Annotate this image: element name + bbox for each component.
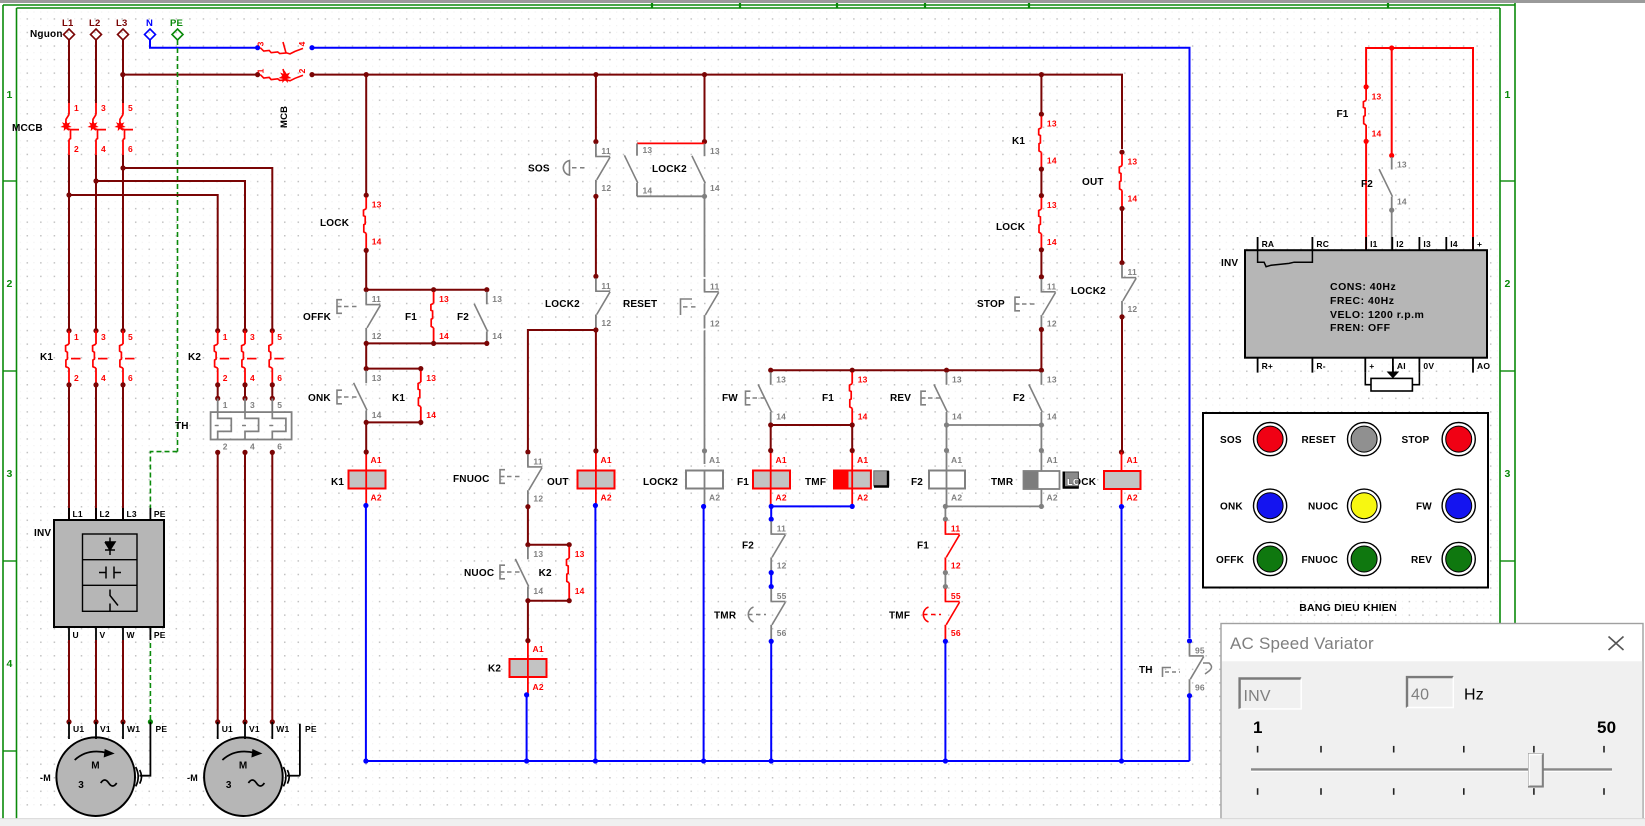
dialog slider thumb (1529, 754, 1544, 787)
dialog body (1222, 661, 1642, 818)
svg-text:3: 3 (250, 332, 255, 342)
svg-text:14: 14 (439, 331, 449, 341)
wire MCB to right neutral drop (312, 48, 1190, 638)
svg-text:13: 13 (776, 375, 786, 385)
svg-text:I2: I2 (1396, 239, 1404, 249)
wire OUT A2 to rail (594, 506, 596, 762)
svg-text:14: 14 (1397, 197, 1407, 207)
wire NUOC row bottom header (528, 600, 569, 602)
svg-text:V1: V1 (249, 724, 260, 734)
potentiometer on AI (1371, 378, 1412, 391)
svg-text:REV: REV (1411, 555, 1432, 566)
svg-text:R-: R- (1316, 361, 1325, 371)
wire branch L3 to K2 pole5 (123, 168, 272, 331)
svg-text:Nguon: Nguon (30, 29, 63, 40)
svg-text:+: + (1369, 361, 1374, 371)
svg-text:F1: F1 (917, 541, 929, 552)
wire rung SOS drop (595, 75, 597, 142)
svg-text:11: 11 (777, 524, 786, 534)
breaker MCB pole N (260, 48, 303, 54)
svg-text:FNUOC: FNUOC (453, 474, 490, 485)
wire L3 control feed (dark red bus) (123, 74, 258, 76)
wire to F1 coil (770, 425, 772, 451)
svg-text:AI: AI (1397, 361, 1406, 371)
svg-text:OFFK: OFFK (1216, 555, 1245, 566)
node L3 bus tap (120, 72, 125, 77)
svg-text:PE: PE (154, 509, 166, 519)
svg-text:11: 11 (951, 524, 960, 534)
node branch L3 (120, 165, 125, 170)
node I-loop junction (1389, 45, 1394, 50)
svg-text:Hz: Hz (1464, 687, 1484, 704)
svg-text:A1: A1 (1127, 455, 1138, 465)
svg-text:95: 95 (1195, 646, 1205, 656)
svg-text:40: 40 (1411, 687, 1429, 704)
dialog slider ticks bottom (1257, 788, 1259, 795)
svg-text:L2: L2 (100, 509, 110, 519)
wire STOP to FW row (1040, 330, 1042, 371)
svg-text:A2: A2 (709, 493, 720, 503)
svg-text:A1: A1 (776, 455, 787, 465)
svg-text:1: 1 (256, 68, 266, 73)
svg-text:R+: R+ (1262, 361, 1274, 371)
svg-text:K1: K1 (331, 477, 344, 488)
svg-text:A2: A2 (1047, 493, 1058, 503)
svg-text:11: 11 (710, 281, 719, 291)
wire A2 join down right chain (944, 506, 946, 519)
svg-text:11: 11 (1047, 281, 1056, 291)
node OUT A2 blue (593, 503, 598, 508)
wire branch L2 to K2 pole3 (96, 181, 245, 331)
svg-text:K1: K1 (1012, 136, 1025, 147)
svg-text:55: 55 (777, 591, 787, 601)
svg-text:LOCK2: LOCK2 (643, 477, 678, 488)
wire L3 down to MCCB (122, 40, 124, 103)
svg-text:F1: F1 (405, 312, 417, 323)
wire FW row join left (771, 424, 853, 426)
svg-text:2: 2 (74, 144, 79, 154)
svg-text:0V: 0V (1423, 361, 1434, 371)
svg-text:6: 6 (277, 442, 282, 452)
inverter INV block right (1245, 250, 1487, 358)
wire rung LOCK2 drop (704, 75, 706, 142)
svg-text:V1: V1 (100, 724, 111, 734)
svg-text:12: 12 (777, 561, 787, 571)
wire L3 MCCB to K1 (122, 155, 124, 331)
contactor K2 pole 2 (242, 328, 247, 333)
svg-text:1: 1 (223, 400, 228, 410)
svg-text:12: 12 (533, 494, 543, 504)
node TH bottom (1187, 693, 1192, 698)
svg-text:FREN: OFF: FREN: OFF (1330, 322, 1391, 334)
node below LOCK2NC (1119, 314, 1124, 319)
svg-text:56: 56 (951, 628, 961, 638)
svg-text:TH: TH (175, 421, 189, 432)
svg-text:FW: FW (722, 393, 738, 404)
timer TMR side chip (1063, 472, 1078, 487)
svg-text:11: 11 (601, 281, 610, 291)
wire OFFK row bottom header (366, 342, 487, 344)
wire NUOC row top header (528, 544, 569, 546)
node FNUOC bottom (525, 504, 530, 509)
svg-text:F1: F1 (737, 477, 749, 488)
svg-text:F2: F2 (457, 312, 469, 323)
dialog AC Speed Variator (1221, 624, 1643, 820)
wire REV row join right (947, 424, 1042, 426)
wire INV outputs to motor 1 (68, 640, 70, 722)
svg-text:14: 14 (372, 237, 382, 247)
wire F2 to I2 (1391, 210, 1393, 252)
svg-text:A2: A2 (371, 493, 382, 503)
control bus horizontal (312, 75, 1122, 149)
motor M1 terminals (66, 719, 71, 724)
svg-text:13: 13 (1372, 91, 1382, 101)
svg-text:4: 4 (250, 373, 255, 383)
svg-text:A1: A1 (709, 455, 720, 465)
svg-text:A1: A1 (1047, 455, 1058, 465)
svg-text:TMF: TMF (805, 477, 826, 488)
svg-text:ONK: ONK (1220, 502, 1243, 513)
svg-text:SOS: SOS (528, 164, 550, 175)
svg-text:AO: AO (1477, 361, 1490, 371)
terminal L1 (64, 29, 75, 40)
svg-text:13: 13 (372, 373, 382, 383)
svg-text:A2: A2 (857, 493, 868, 503)
svg-text:4: 4 (297, 41, 307, 46)
svg-text:LOCK2: LOCK2 (652, 164, 687, 175)
wire split to FNUOC rung (528, 330, 596, 452)
wire TH to rail corner (1189, 696, 1191, 761)
inverter INV block left (54, 520, 164, 627)
node SOS top (593, 139, 598, 144)
frame row dividers left (3, 180, 17, 182)
node TMR bottom blue (769, 639, 774, 644)
wire to F2 coil (946, 425, 948, 471)
node LOCK2 pair bottom (702, 194, 707, 199)
svg-text:12: 12 (1047, 318, 1057, 328)
svg-text:+: + (1477, 239, 1482, 249)
wire RESET to LOCK2 coil (704, 331, 706, 465)
wire SOS to LOCK2NC (595, 196, 597, 276)
svg-text:13: 13 (372, 200, 382, 210)
wire to K1 coil (365, 422, 367, 452)
svg-text:14: 14 (492, 331, 502, 341)
svg-text:STOP: STOP (1402, 435, 1430, 446)
svg-text:13: 13 (1047, 119, 1057, 129)
contact LOCK2 NO inline (704, 144, 706, 157)
svg-text:96: 96 (1195, 683, 1205, 693)
node bus tap rung LOCK2 (702, 72, 707, 77)
svg-text:3: 3 (250, 400, 255, 410)
svg-text:14: 14 (858, 412, 868, 422)
svg-text:RESET: RESET (623, 299, 657, 310)
wire ONK row bottom header (366, 421, 421, 423)
wire PE jog to INV (150, 452, 177, 512)
wire short link (770, 573, 772, 587)
svg-text:3: 3 (78, 780, 84, 791)
wire A2 join down (770, 506, 772, 519)
svg-text:6: 6 (128, 144, 133, 154)
wire N to MCB (blue neutral) (150, 40, 258, 48)
svg-text:F1: F1 (822, 393, 834, 404)
INV bottom terminals (1257, 358, 1259, 373)
wire to LOCK coil (1121, 317, 1123, 452)
svg-text:L1: L1 (73, 509, 83, 519)
svg-text:14: 14 (1372, 128, 1382, 138)
svg-text:STOP: STOP (977, 299, 1005, 310)
svg-text:55: 55 (951, 591, 961, 601)
motor M2 (204, 737, 283, 816)
wire L1 down to MCCB (68, 40, 70, 103)
svg-text:LOCK: LOCK (320, 218, 350, 229)
wire to TMR coil (1040, 425, 1042, 471)
wire LOCK2 branch bottom header (gray) (637, 195, 705, 197)
svg-text:INV: INV (34, 528, 51, 539)
svg-text:12: 12 (372, 331, 382, 341)
contactor K2 pole 3 (270, 328, 275, 333)
node split OUT/FNUOC (593, 327, 598, 332)
node MCB blue left (255, 45, 260, 50)
svg-text:A2: A2 (601, 493, 612, 503)
svg-text:MCCB: MCCB (12, 123, 43, 134)
svg-text:A1: A1 (951, 455, 962, 465)
svg-text:12: 12 (710, 318, 720, 328)
svg-text:INV: INV (1221, 258, 1238, 269)
svg-text:I3: I3 (1423, 239, 1431, 249)
svg-text:K2: K2 (539, 568, 552, 579)
svg-text:1: 1 (223, 332, 228, 342)
svg-text:11: 11 (1128, 267, 1137, 277)
svg-text:LOCK2: LOCK2 (1071, 286, 1106, 297)
svg-text:-M: -M (40, 773, 51, 783)
node LOCK A2 blue (1119, 504, 1124, 509)
svg-text:OUT: OUT (1082, 177, 1104, 188)
wire K1 A2 to rail (365, 506, 367, 762)
svg-text:56: 56 (777, 628, 787, 638)
svg-text:LOCK: LOCK (996, 222, 1026, 233)
svg-text:13: 13 (533, 549, 543, 559)
node K2 A2 blue (524, 692, 529, 697)
svg-text:1: 1 (1504, 89, 1510, 101)
breaker MCCB pole 2 (95, 103, 97, 115)
frame top column ticks (651, 3, 653, 8)
wire LOCK2 pair to RESET (704, 196, 706, 277)
breaker MCCB pole 1 (68, 103, 70, 115)
wire short link right (944, 573, 946, 587)
svg-text:K1: K1 (392, 393, 405, 404)
terminal PE (172, 29, 183, 40)
wire ONK row top header (366, 368, 421, 370)
node K1 aux top (1039, 112, 1044, 117)
svg-text:14: 14 (1128, 194, 1138, 204)
svg-text:1: 1 (74, 332, 79, 342)
wire TH outputs to motor 2 (217, 452, 219, 722)
svg-text:50: 50 (1597, 718, 1616, 737)
svg-text:F1: F1 (1337, 109, 1349, 120)
timer TMF side chip (874, 471, 889, 486)
svg-text:13: 13 (1047, 375, 1057, 385)
node bus tap rung SOS (593, 72, 598, 77)
svg-text:K2: K2 (488, 664, 501, 675)
dialog slider ticks top (1257, 746, 1259, 753)
drawing frame outer border (3, 4, 1515, 6)
svg-text:-M: -M (187, 773, 198, 783)
svg-text:L3: L3 (127, 509, 137, 519)
wire F1 to I1 (1365, 141, 1367, 252)
svg-text:FNUOC: FNUOC (1302, 555, 1339, 566)
contactor K2 pole 1 (215, 328, 220, 333)
svg-text:N: N (146, 18, 153, 29)
svg-text:3: 3 (226, 780, 232, 791)
contactor K1 pole 2 (93, 328, 98, 333)
node bus tap rung K1 (364, 72, 369, 77)
svg-text:OUT: OUT (547, 477, 569, 488)
node branch L1 (66, 192, 71, 197)
INV top terminals (1257, 237, 1259, 250)
motor M2 terminals (215, 719, 220, 724)
svg-text:2: 2 (6, 278, 12, 290)
node LOCK2 pair top (702, 139, 707, 144)
svg-text:A1: A1 (371, 455, 382, 465)
dialog close X (1609, 637, 1624, 651)
terminal L2 (91, 29, 102, 40)
svg-text:NUOC: NUOC (1308, 502, 1338, 513)
svg-text:2: 2 (223, 373, 228, 383)
node branch L2 (93, 178, 98, 183)
drawing frame inner border (17, 7, 1501, 9)
svg-text:14: 14 (952, 412, 962, 422)
node N line TH top (1187, 638, 1192, 643)
motor M1 (56, 737, 135, 816)
svg-text:2: 2 (74, 373, 79, 383)
svg-text:14: 14 (533, 586, 543, 596)
svg-text:FW: FW (1416, 502, 1432, 513)
svg-text:U1: U1 (222, 724, 233, 734)
node MCB blue right (309, 45, 314, 50)
breaker MCB pole L (closed with trip star) (260, 75, 303, 81)
svg-text:5: 5 (277, 400, 282, 410)
svg-text:PE: PE (156, 724, 168, 734)
wire branch L1 to K2 pole1 (69, 195, 218, 331)
svg-text:4: 4 (101, 144, 106, 154)
svg-text:M: M (239, 761, 248, 772)
node MCB dkred right (309, 72, 314, 77)
svg-text:13: 13 (643, 145, 653, 155)
svg-text:L2: L2 (89, 18, 101, 29)
svg-text:14: 14 (1047, 237, 1057, 247)
svg-text:F2: F2 (1013, 393, 1025, 404)
wire F2/TMR A2 gray join (945, 505, 1041, 507)
svg-text:FREC: 40Hz: FREC: 40Hz (1330, 295, 1395, 307)
neutral bottom rail (366, 760, 1190, 762)
contactor K1 pole 3 (120, 328, 125, 333)
node STOP bottom (1039, 327, 1044, 332)
svg-text:AC Speed Variator: AC Speed Variator (1230, 634, 1374, 653)
wire L2 down to MCCB (95, 40, 97, 103)
svg-text:VELO: 1200 r.p.m: VELO: 1200 r.p.m (1330, 309, 1424, 321)
svg-text:13: 13 (952, 375, 962, 385)
wire K1aux to LOCK (1040, 169, 1042, 196)
wire rung STOP drop (1040, 75, 1042, 115)
svg-text:3: 3 (101, 103, 106, 113)
svg-text:TMR: TMR (714, 611, 737, 622)
control panel box (1203, 413, 1488, 588)
wire junction drop (1391, 48, 1393, 156)
svg-text:4: 4 (101, 373, 106, 383)
wire PE dashed down (177, 40, 179, 452)
frame row dividers right (1500, 180, 1515, 182)
wire F1/TMF A2 blue join (771, 505, 852, 507)
terminal L3 (118, 29, 129, 40)
wire OUTaux to LOCK2NC (1121, 209, 1123, 263)
node LOCK2NC top (593, 274, 598, 279)
svg-text:4: 4 (6, 658, 12, 670)
wire FW row feed header (771, 369, 1042, 371)
svg-text:A2: A2 (951, 493, 962, 503)
svg-text:14: 14 (643, 186, 653, 196)
dialog INV field (1240, 679, 1302, 709)
svg-text:F2: F2 (1361, 179, 1373, 190)
top window edge gray band (0, 0, 1645, 3)
svg-text:14: 14 (372, 410, 382, 420)
svg-text:V: V (100, 630, 106, 640)
svg-text:I1: I1 (1370, 239, 1378, 249)
svg-text:TH: TH (1139, 665, 1153, 676)
svg-text:PE: PE (154, 630, 166, 640)
svg-text:13: 13 (575, 549, 585, 559)
svg-text:F2: F2 (742, 541, 754, 552)
svg-text:K2: K2 (188, 352, 201, 363)
svg-text:3: 3 (6, 468, 12, 480)
svg-text:RA: RA (1262, 239, 1275, 249)
svg-text:PE: PE (305, 724, 317, 734)
wire chain right to rail (944, 641, 946, 761)
svg-text:13: 13 (710, 146, 720, 156)
svg-text:RC: RC (1316, 239, 1329, 249)
contactor K1 pole 1 (66, 328, 71, 333)
svg-text:12: 12 (601, 318, 611, 328)
bottom window strip (0, 819, 1645, 826)
wire LOCK to STOP (1040, 250, 1042, 277)
svg-text:TMF: TMF (889, 611, 910, 622)
svg-text:3: 3 (256, 41, 266, 46)
svg-text:A1: A1 (601, 455, 612, 465)
wire LOCK to OFFK row (365, 250, 367, 289)
svg-text:W1: W1 (127, 724, 140, 734)
svg-text:ONK: ONK (308, 393, 331, 404)
svg-text:W: W (127, 630, 136, 640)
svg-text:A2: A2 (776, 493, 787, 503)
svg-text:F2: F2 (911, 477, 923, 488)
wire OFFK row top header (366, 289, 487, 291)
wire FNUOC to NUOC row (527, 507, 529, 545)
svg-text:14: 14 (426, 410, 436, 420)
svg-text:I4: I4 (1450, 239, 1458, 249)
svg-text:L3: L3 (116, 18, 128, 29)
svg-text:A1: A1 (857, 455, 868, 465)
wire L1 MCCB to K1 (68, 155, 70, 331)
svg-text:4: 4 (250, 442, 255, 452)
svg-text:CONS: 40Hz: CONS: 40Hz (1330, 281, 1396, 293)
thermal relay TH (215, 396, 220, 401)
rail junction nodes (363, 758, 368, 763)
svg-text:RESET: RESET (1302, 435, 1336, 446)
breaker MCCB pole 3 (122, 103, 124, 115)
svg-text:1: 1 (74, 103, 79, 113)
svg-text:A2: A2 (533, 682, 544, 692)
svg-text:3: 3 (1504, 468, 1510, 480)
svg-text:13: 13 (1128, 157, 1138, 167)
